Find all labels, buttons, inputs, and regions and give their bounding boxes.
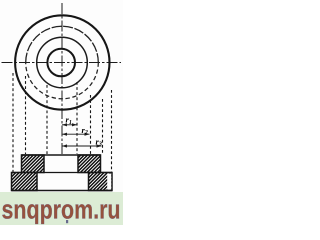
horizontal centerline xyxy=(2,62,122,64)
section lower-left block xyxy=(12,173,38,191)
section upper-left block xyxy=(22,155,45,173)
vertical centerline xyxy=(61,3,63,155)
projection line left bore xyxy=(46,85,48,154)
watermark band xyxy=(0,192,123,225)
boss top line xyxy=(22,154,101,156)
inner circle xyxy=(47,49,75,77)
middle circle xyxy=(37,37,88,88)
projection line left boss xyxy=(25,76,27,154)
dimension r2 xyxy=(62,133,90,136)
projection line right bore r1 xyxy=(76,82,78,154)
small artifact mark xyxy=(66,220,68,223)
outer circle (flange) xyxy=(15,15,109,109)
section upper-right block xyxy=(78,155,101,173)
section lower-right block xyxy=(89,173,113,191)
step line across xyxy=(12,172,113,174)
dimension r1 xyxy=(62,123,77,126)
white sliver in lower-right block xyxy=(107,174,111,190)
hidden circle lower half xyxy=(26,63,99,99)
hidden circle (dashed) xyxy=(26,26,99,62)
projection line left outer xyxy=(12,73,14,173)
projection line right r2 xyxy=(90,95,92,154)
projection line right r3 xyxy=(102,99,104,154)
svg-text:snqprom.ru: snqprom.ru xyxy=(2,195,121,225)
bottom line xyxy=(12,190,113,192)
dimension r3 xyxy=(62,144,102,147)
projection line right outer xyxy=(111,90,113,173)
